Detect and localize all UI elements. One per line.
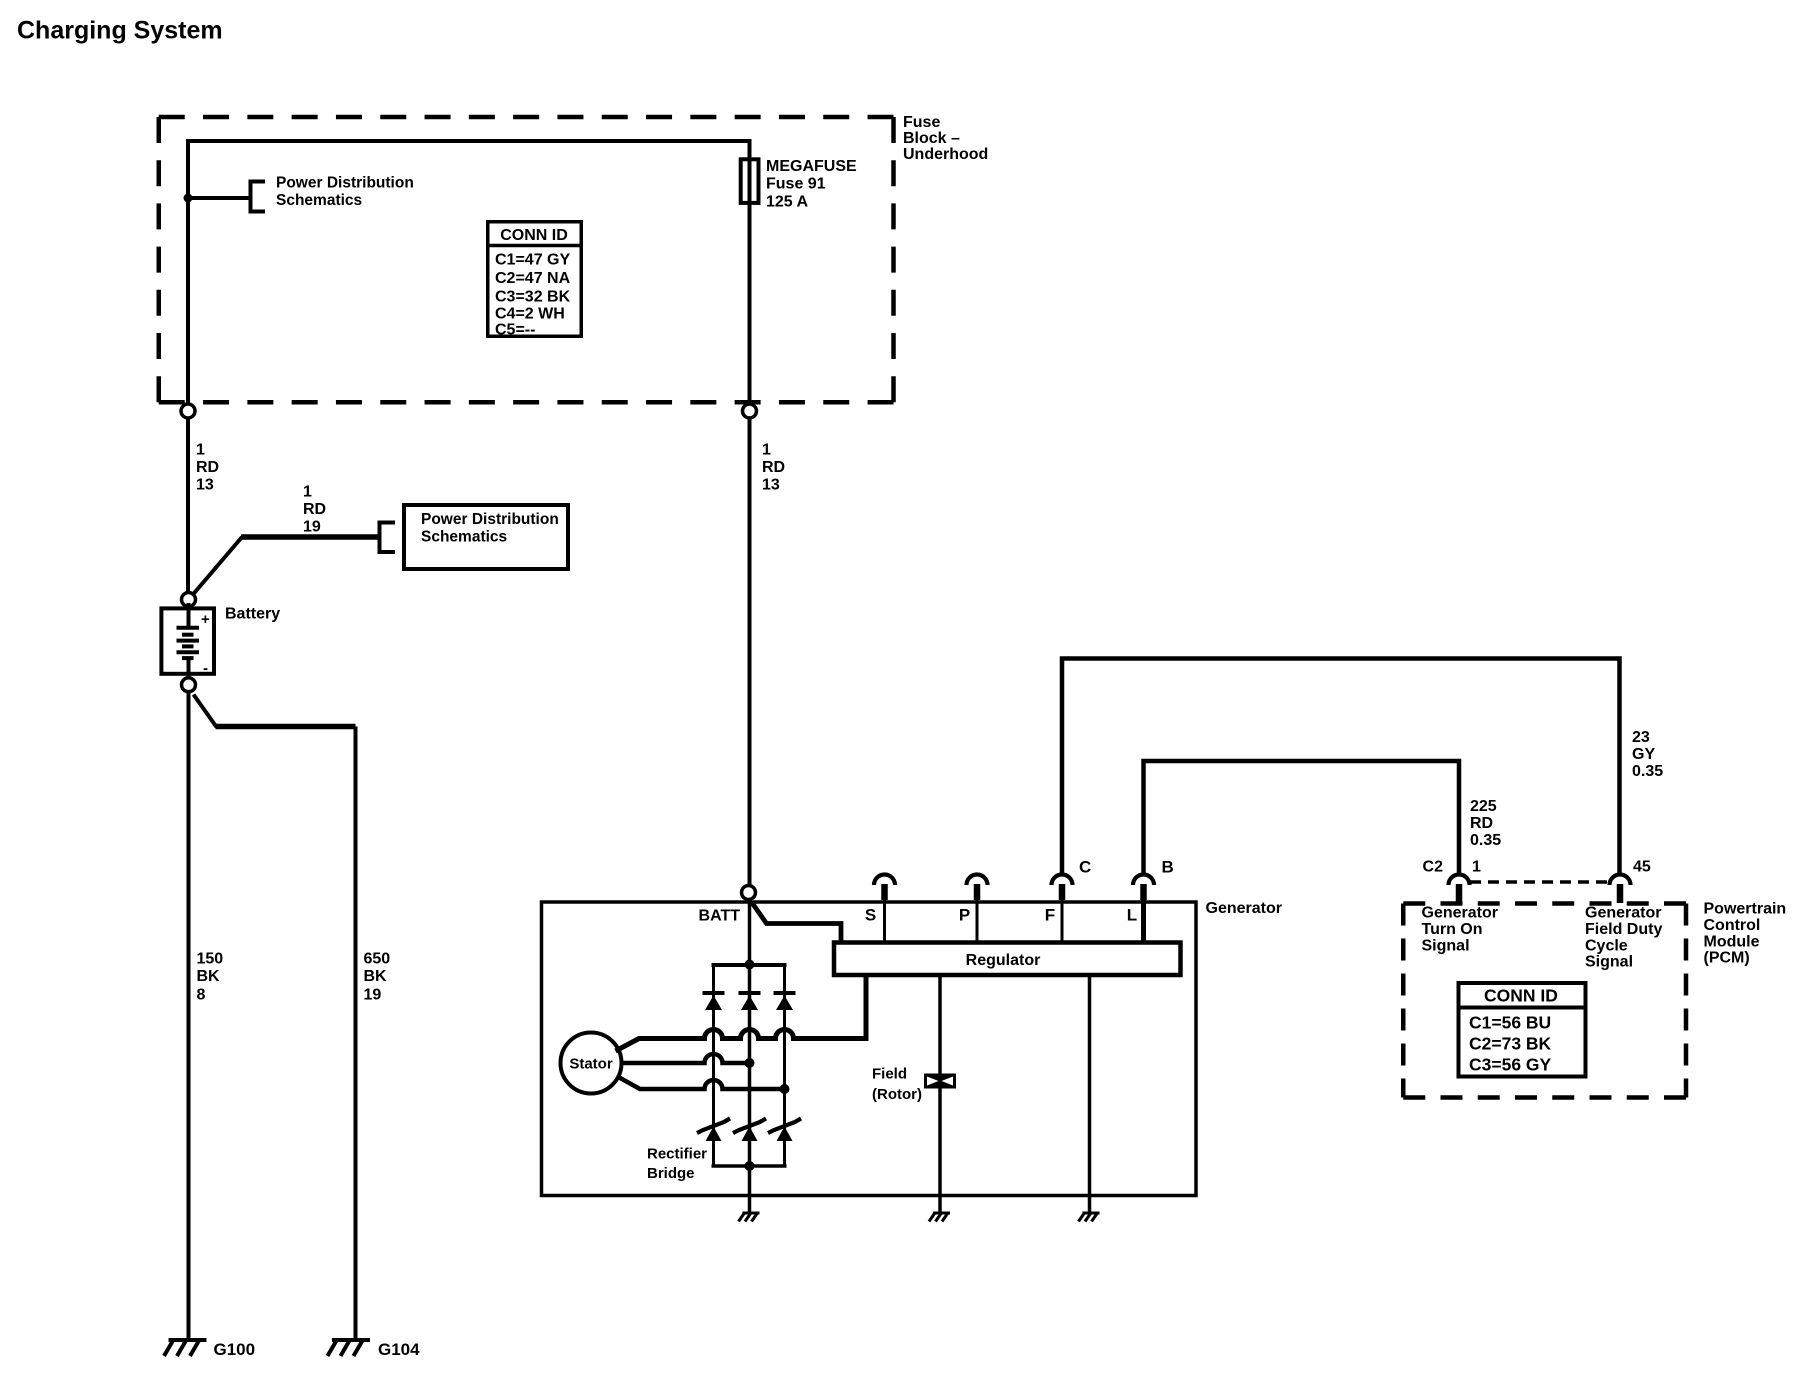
wire BATT to regulator jog (752, 902, 842, 944)
wire stator phase 1 (to regulator) (616, 974, 867, 1051)
pin 45 stub (1617, 884, 1624, 903)
battery box (161, 608, 214, 673)
rectifier column 3 (783, 965, 786, 1166)
pin P connector arc (967, 875, 988, 886)
svg-text:CONN ID: CONN ID (500, 227, 568, 244)
svg-text:CONN ID: CONN ID (1484, 986, 1558, 1006)
svg-text:+: + (201, 611, 210, 628)
regulator box (834, 943, 1181, 976)
svg-text:P: P (959, 906, 970, 925)
BATT terminal circle (742, 886, 756, 900)
wire stator phase 3 (618, 1077, 785, 1090)
diode D1 (top left) (703, 993, 725, 1010)
svg-text:B: B (1162, 858, 1174, 877)
pin L wire (1141, 900, 1146, 941)
svg-text:BATT: BATT (699, 908, 741, 925)
wire 650 BK vertical to G104 (354, 727, 358, 1339)
wire rectifier center column (748, 900, 752, 1214)
svg-text:Stator: Stator (569, 1056, 613, 1073)
field (rotor) winding symbol (924, 1074, 956, 1089)
wire 225 RD run (L to PCM C2-1) (1144, 761, 1460, 876)
CONN ID table (fuse block) (488, 222, 582, 339)
wire battery negative to G100 (187, 692, 191, 1338)
battery B+ terminal circle (182, 593, 196, 607)
ground G100 (164, 1340, 207, 1356)
svg-text:S: S (865, 906, 876, 925)
off-page bracket (power distribution schematics) (251, 182, 266, 212)
rectifier top bus (712, 963, 787, 967)
node top bus junction (745, 960, 755, 970)
pin S stub (881, 884, 888, 900)
svg-text:-: - (203, 660, 208, 677)
wire regulator ground (1088, 976, 1092, 1213)
wire stator phase 2 (622, 1054, 750, 1063)
svg-text:G104: G104 (378, 1340, 420, 1359)
ground (regulator) (1079, 1213, 1100, 1222)
wire diagonal battery plus branch (193, 537, 243, 595)
svg-text:C2: C2 (1423, 859, 1444, 876)
battery cell plates (177, 603, 200, 681)
pin L stub (1140, 884, 1147, 900)
fuse MEGAFUSE Fuse 91 (741, 159, 759, 203)
ground G104 (328, 1340, 371, 1356)
svg-text:45: 45 (1633, 859, 1651, 876)
box Power Distribution Schematics (lower) (404, 505, 568, 569)
node phase 3 junction (780, 1084, 790, 1094)
rectifier column 1 (712, 965, 715, 1166)
svg-text:G100: G100 (214, 1340, 256, 1359)
diode D3 (top right) (774, 993, 796, 1010)
pin F stub (1059, 884, 1066, 900)
wire left feed to battery (186, 418, 190, 593)
pin P wire (976, 900, 979, 941)
svg-text:Regulator: Regulator (966, 952, 1041, 969)
wire 650 BK horizontal (216, 724, 356, 730)
svg-text:F: F (1045, 906, 1055, 925)
battery negative terminal circle (182, 678, 196, 692)
wire diagonal battery negative branch (194, 695, 217, 728)
svg-text:Battery: Battery (225, 606, 280, 623)
wire bus inside fuse block (188, 141, 750, 408)
wire 1 RD 19 horizontal (241, 534, 378, 540)
pin F connector arc (1052, 875, 1073, 886)
pin C2-1 connector arc (1449, 875, 1470, 886)
powertrain control module dashed box (1403, 904, 1686, 1098)
pin 45 connector arc (1610, 875, 1631, 886)
ground (rectifier) (739, 1213, 760, 1222)
pin S wire (883, 900, 886, 941)
rectifier bottom bus (712, 1164, 787, 1168)
pin L connector arc (1133, 875, 1154, 886)
svg-text:1: 1 (1472, 859, 1481, 876)
connector circle left (fuse block bottom) (181, 404, 195, 418)
node bottom bus junction (745, 1161, 755, 1171)
wire branch to power distribution (188, 196, 251, 200)
wire dashed connector interconnect (1470, 880, 1609, 884)
diode D6 (bottom right, avalanche) (768, 1119, 801, 1142)
pin S connector arc (874, 875, 895, 886)
fuse block - underhood dashed box (159, 117, 894, 402)
CONN ID table (PCM) (1459, 983, 1586, 1077)
node phase 2 junction (745, 1058, 755, 1068)
generator box (542, 902, 1197, 1196)
diode D4 (bottom left, avalanche) (697, 1119, 730, 1142)
diode D2 (top middle) (739, 993, 761, 1010)
svg-text:Charging System: Charging System (17, 17, 223, 45)
wire BATT feed vertical (748, 418, 752, 886)
connector circle right (fuse block bottom) (743, 404, 757, 418)
diode D5 (bottom middle, avalanche) (733, 1119, 766, 1142)
svg-text:C: C (1079, 858, 1091, 877)
pin P stub (974, 884, 981, 900)
off-page bracket (lower power distribution) (380, 523, 396, 553)
svg-text:Generator: Generator (1206, 900, 1282, 917)
node junction on left fuse wire (184, 194, 193, 203)
svg-text:L: L (1127, 906, 1137, 925)
ground (field) (929, 1213, 950, 1222)
stator circle (561, 1033, 622, 1094)
pin F wire (1061, 900, 1064, 941)
svg-text:C1=56 BUC2=73 BKC3=56 GY: C1=56 BUC2=73 BKC3=56 GY (1469, 1013, 1552, 1075)
wire field (rotor) (938, 976, 942, 1213)
wire 23 GY run (F to PCM 45) (1062, 659, 1620, 877)
pin C2-1 stub (1456, 884, 1463, 903)
